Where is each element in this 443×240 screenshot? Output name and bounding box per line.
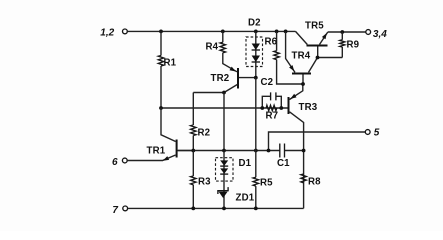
svg-text:R5: R5 xyxy=(260,178,273,189)
node P: junction node Y / wire to 5 xyxy=(267,149,271,153)
resistor R5 xyxy=(255,151,257,209)
svg-text:R9: R9 xyxy=(347,40,360,51)
wire: output rail to terminal 3,4 xyxy=(328,31,366,33)
node X: junction R1 / TR1 collector / wire xyxy=(159,106,163,110)
svg-text:6: 6 xyxy=(112,157,118,168)
resistor R8 xyxy=(301,174,306,183)
node N: junction node Y / D1 xyxy=(222,149,226,153)
resistor R4 xyxy=(222,31,224,42)
node E: junction top rail / TR4 emitter xyxy=(284,30,288,34)
svg-text:TR4: TR4 xyxy=(292,51,311,62)
node S: junction bottom rail / ZD1 xyxy=(222,207,226,211)
node G: junction output rail / R9 xyxy=(340,30,344,34)
wire: terminal 6 to TR1 emitter xyxy=(127,160,163,162)
svg-text:R4: R4 xyxy=(206,42,219,53)
wire: TR2 base to D2 column xyxy=(239,77,256,79)
svg-text:TR3: TR3 xyxy=(299,102,318,113)
svg-text:C2: C2 xyxy=(261,77,274,88)
node R: junction bottom rail / R3 xyxy=(191,207,195,211)
terminal 1,2 xyxy=(123,29,128,34)
node B: junction top rail / R4 xyxy=(221,30,225,34)
terminal 6 xyxy=(122,158,127,163)
wire: TR4 emitter lead xyxy=(286,31,295,72)
terminal 7 xyxy=(123,206,128,211)
resistor R1 xyxy=(160,31,162,108)
wire: bottom rail xyxy=(128,207,304,209)
svg-text:R2: R2 xyxy=(198,128,211,139)
svg-text:1,2: 1,2 xyxy=(100,27,114,38)
resistor R9 xyxy=(341,32,343,58)
svg-text:R6: R6 xyxy=(265,37,278,48)
node D: junction top rail / R6 xyxy=(275,30,279,34)
node Q: junction C1 right / TR3 collector / R8 xyxy=(302,149,306,153)
node J: junction C2 left / R7 xyxy=(260,106,264,110)
node I: junction TR2 base / D2 bottom xyxy=(254,76,258,80)
node K: junction C2 right / R7 xyxy=(279,106,283,110)
svg-text:C1: C1 xyxy=(277,158,290,169)
svg-text:3,4: 3,4 xyxy=(373,29,387,40)
terminal 3,4 xyxy=(366,30,371,35)
capacitor C1 xyxy=(280,144,285,158)
node A: junction top rail / R1 xyxy=(159,30,163,34)
wire: terminal 5 line xyxy=(269,132,366,151)
node H: junction TR2 collector / wire to R2 / wire to D1 xyxy=(222,91,226,95)
svg-text:TR1: TR1 xyxy=(147,146,166,157)
node M: junction node Y / R2 R3 xyxy=(191,149,195,153)
svg-text:7: 7 xyxy=(112,205,118,216)
node T: junction bottom rail / R5 xyxy=(254,207,258,211)
wire: node Y rail (TR1 base line) xyxy=(178,150,304,152)
wire: node X rail (R1 bottom to TR3 base) xyxy=(161,107,288,109)
svg-text:R3: R3 xyxy=(198,177,211,188)
node C: junction top rail / D2 xyxy=(254,30,258,34)
svg-text:ZD1: ZD1 xyxy=(236,193,255,204)
resistor R7 xyxy=(266,105,277,110)
node F: junction TR5 base / TR4 collector / R9 xyxy=(316,56,320,60)
svg-text:R8: R8 xyxy=(308,177,321,188)
svg-text:TR2: TR2 xyxy=(211,73,230,84)
svg-text:5: 5 xyxy=(374,127,380,138)
svg-text:R7: R7 xyxy=(266,111,279,122)
node O: junction node Y / D2 column R5 xyxy=(254,149,258,153)
wire: TR2 collector down to D1 column xyxy=(223,93,225,151)
resistor R3 xyxy=(192,151,194,209)
terminal 5 xyxy=(365,130,370,135)
node L: junction R6 / TR4 base / TR3 emitter xyxy=(301,82,305,86)
resistor R6 xyxy=(277,31,303,84)
wire: D2 column down to node Y and R5 xyxy=(255,78,257,151)
svg-text:D1: D1 xyxy=(239,158,252,169)
svg-text:TR5: TR5 xyxy=(305,21,324,32)
svg-text:R1: R1 xyxy=(164,58,177,69)
resistor R2 xyxy=(192,93,194,151)
wire: top rail from terminal 1,2 to TR5 collector bend xyxy=(127,30,295,32)
svg-text:D2: D2 xyxy=(248,18,261,29)
